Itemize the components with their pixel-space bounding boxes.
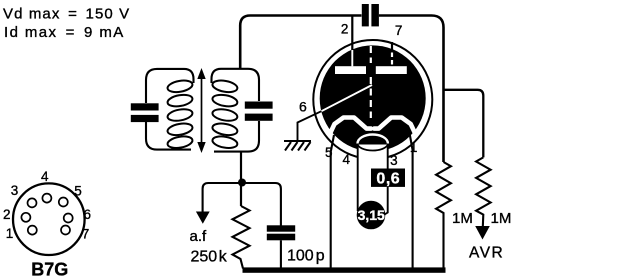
svg-text:1M: 1M [491, 210, 512, 227]
transformer right tank loop [212, 69, 260, 152]
wire branch to second 1M [444, 90, 484, 158]
label 0,6 box [371, 169, 405, 187]
capacitor left tank [131, 103, 159, 110]
capacitor right tank [245, 102, 273, 109]
socket pin holes [21, 194, 72, 235]
svg-text:2: 2 [3, 207, 11, 222]
wire top feed to transformer [240, 16, 361, 70]
heater lead pin 4 [357, 145, 359, 211]
svg-text:2: 2 [341, 22, 349, 37]
svg-text:1M: 1M [452, 210, 473, 227]
svg-text:1: 1 [6, 226, 14, 241]
anode plate right [376, 66, 407, 74]
svg-text:7: 7 [395, 23, 403, 38]
capacitor 100p [267, 225, 295, 231]
cathode right [374, 118, 415, 133]
anode plate left [335, 66, 366, 74]
transformer left tank loop [146, 69, 194, 150]
tube V1 cathode disc [320, 45, 426, 151]
svg-text:6: 6 [83, 207, 91, 222]
svg-text:4: 4 [41, 169, 49, 184]
AVR arrow [475, 226, 490, 240]
svg-text:3: 3 [11, 183, 19, 198]
heater loop bottom arc [358, 144, 388, 151]
svg-text:Vd max = 150 V: Vd max = 150 V [3, 6, 130, 23]
node junction dot [238, 179, 246, 187]
wire top right [379, 16, 444, 163]
resistor 1M left [436, 162, 451, 269]
svg-text:5: 5 [325, 145, 333, 160]
a.f output arrow [196, 212, 210, 224]
svg-text:3,15: 3,15 [358, 207, 385, 223]
wire transformer bottom to node [240, 152, 242, 206]
wire node to a.f arrow [203, 183, 241, 212]
capacitor C-top (coupling) [362, 4, 369, 26]
svg-text:1: 1 [410, 140, 418, 155]
svg-text:0,6: 0,6 [376, 171, 400, 188]
ground [284, 141, 311, 151]
wire pin6 to shield (inside tube) [321, 85, 372, 111]
pin 1 lead [410, 133, 413, 268]
wire node to 100p [242, 183, 281, 226]
inductor L1 (left coil) [167, 79, 194, 150]
shield dashed line [370, 46, 372, 63]
tuning arrow between coils [197, 68, 205, 153]
resistor 250k [233, 206, 250, 269]
resistor 1M right [476, 157, 491, 227]
source 3,15 [357, 201, 386, 230]
svg-text:100p: 100p [287, 248, 325, 265]
pin 2 lead [351, 16, 353, 51]
svg-text:a.f: a.f [190, 228, 208, 245]
wire pin6 to ground [298, 111, 322, 140]
cathode left [331, 118, 372, 133]
svg-text:4: 4 [342, 152, 350, 167]
svg-text:5: 5 [74, 184, 82, 199]
heater lead pin 3 [385, 145, 388, 215]
heater loop top arc [358, 135, 388, 144]
heater capsule white interior [358, 145, 387, 210]
tube V1 envelope [313, 40, 432, 159]
pin 7 lead [391, 42, 393, 52]
svg-text:Id max = 9 mA: Id max = 9 mA [4, 24, 125, 41]
svg-text:B7G: B7G [31, 259, 68, 279]
svg-text:6: 6 [299, 98, 307, 114]
inductor L2 (right coil) [212, 79, 239, 150]
bottom rail [243, 267, 446, 272]
socket B7G outline [13, 183, 85, 255]
pin 5 lead [331, 135, 334, 268]
svg-text:250k: 250k [191, 249, 228, 266]
svg-text:3: 3 [390, 153, 398, 168]
svg-text:7: 7 [82, 226, 90, 241]
svg-text:AVR: AVR [469, 245, 504, 262]
